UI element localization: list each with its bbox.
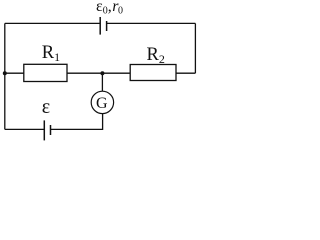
wire middle-left segment — [5, 72, 24, 74]
battery E long plate — [43, 120, 45, 140]
wire right edge — [194, 23, 196, 73]
wire top-right segment — [107, 22, 196, 24]
wire left edge — [4, 23, 6, 129]
svg-text:G: G — [96, 95, 108, 112]
battery E short plate — [50, 125, 52, 135]
galvanometer G — [91, 91, 113, 113]
battery E0 r0 long plate — [99, 17, 101, 35]
resistor R2 — [130, 65, 176, 81]
wire bottom-right segment — [51, 114, 103, 130]
wire top-left segment — [5, 22, 100, 24]
node center junction — [100, 71, 104, 75]
resistor R1 — [24, 64, 67, 81]
wire bottom-left segment — [5, 128, 45, 130]
svg-text:ε: ε — [42, 96, 50, 118]
wire galvanometer top lead — [101, 73, 103, 91]
node left junction — [3, 71, 7, 75]
wire middle-right segment — [176, 72, 195, 74]
wire middle-center segment — [67, 72, 130, 74]
battery E0 r0 short plate — [106, 21, 108, 31]
